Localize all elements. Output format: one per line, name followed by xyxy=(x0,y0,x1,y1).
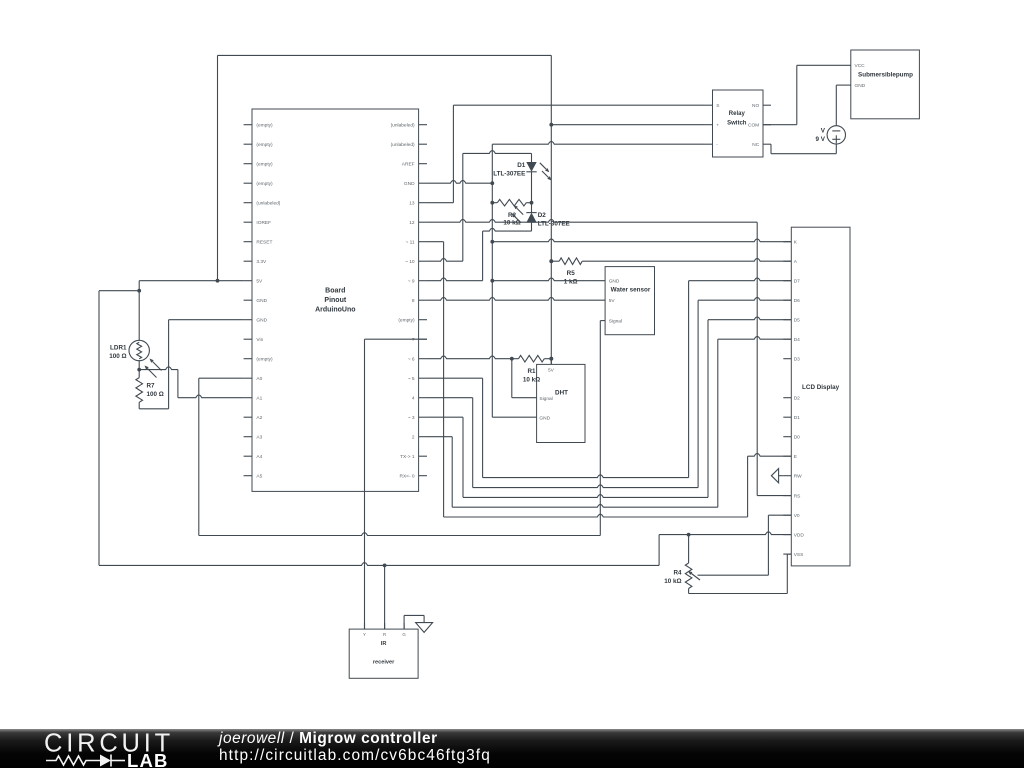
resistor R2 xyxy=(492,202,497,204)
board U1 right pin RX<- 0 row 18 xyxy=(419,475,427,477)
LCD pin RS xyxy=(783,495,791,497)
board U1 right pin ~ 3 row 15 xyxy=(419,416,427,418)
board U1 right pin GND row 3 xyxy=(419,182,427,184)
wire DHT 5V stub xyxy=(550,359,552,365)
board U1 right pin 7 row 11 xyxy=(419,338,427,340)
svg-text:+: + xyxy=(716,123,719,128)
wire IR G up xyxy=(403,615,405,629)
board-pinout U1 ArduinoUno xyxy=(252,109,419,491)
svg-text:VDD: VDD xyxy=(794,532,805,538)
wire GND riser x168 xyxy=(168,320,170,409)
svg-text:8: 8 xyxy=(412,298,415,304)
svg-text:D1: D1 xyxy=(517,162,526,169)
relay left pin + xyxy=(705,124,713,126)
LCD pin D2 xyxy=(783,397,791,399)
node LDR top-left junction xyxy=(137,289,141,293)
svg-text:LDR1: LDR1 xyxy=(110,344,127,351)
svg-text:5V: 5V xyxy=(609,298,616,304)
board U1 left pin GND row 10 xyxy=(244,319,252,321)
wire 5V corner to LDR xyxy=(138,281,140,341)
IR receiver pin R xyxy=(384,623,386,629)
wire COM riser xyxy=(796,65,798,124)
board U1 left pin A2 row 15 xyxy=(244,416,252,418)
board U1 left pin A4 row 17 xyxy=(244,455,252,457)
wire relay S feed xyxy=(453,104,704,106)
svg-text:AREF: AREF xyxy=(402,161,415,167)
circuitlab logo xyxy=(42,729,192,768)
svg-text:D7: D7 xyxy=(794,278,800,284)
wire pump VCC feed xyxy=(797,64,851,66)
svg-text:(unlabeled): (unlabeled) xyxy=(256,200,280,206)
svg-text:receiver: receiver xyxy=(373,660,395,666)
svg-text:G: G xyxy=(402,632,406,637)
svg-text:RS: RS xyxy=(794,493,801,499)
wire A0 bottom run xyxy=(199,533,601,536)
svg-text:Submersiblepump: Submersiblepump xyxy=(858,71,913,78)
wire D7 riser xyxy=(688,281,690,478)
svg-text:~ 9: ~ 9 xyxy=(408,278,415,284)
battery V1 symbol xyxy=(827,126,845,144)
svg-text:RX<- 0: RX<- 0 xyxy=(400,473,415,479)
wire bottom 5V rail xyxy=(99,563,659,566)
LCD pin E xyxy=(783,455,791,457)
svg-text:A4: A4 xyxy=(256,454,262,460)
board U1 right pin ~ 6 row 12 xyxy=(419,358,427,360)
wire battery bottom lead xyxy=(835,144,837,154)
LCD pin K xyxy=(783,241,791,243)
svg-text:D1: D1 xyxy=(794,415,800,421)
R4 wiper arrow xyxy=(691,574,700,581)
wire VSS riser xyxy=(786,554,788,593)
LDR1 light arrows xyxy=(153,362,162,371)
svg-text:100 Ω: 100 Ω xyxy=(147,391,164,398)
node IR R junction xyxy=(383,564,387,568)
node 5V junction at x217 xyxy=(216,279,220,283)
board U1 left pin (empty) row 0 xyxy=(244,124,252,126)
board U1 right pin (unlabeled) row 1 xyxy=(419,143,427,145)
LCD pin VSS xyxy=(783,553,791,555)
wire R7 bottom to GND riser xyxy=(139,408,168,410)
board U1 left pin IOREF row 5 xyxy=(244,221,252,223)
board U1 left pin (empty) row 12 xyxy=(244,358,252,360)
svg-text:7: 7 xyxy=(412,337,415,343)
wire relay plus feed xyxy=(551,124,704,126)
board U1 left pin RESET row 6 xyxy=(244,241,252,243)
wire DHT signal feed xyxy=(512,397,537,399)
svg-text:D5: D5 xyxy=(794,317,800,323)
svg-text:(unlabeled): (unlabeled) xyxy=(391,122,415,128)
wire water sensor GND line xyxy=(492,278,605,281)
wire 5V pin to left corner xyxy=(139,280,243,282)
wire pin9 out xyxy=(427,278,483,281)
wire bus L3 xyxy=(463,495,708,498)
svg-text:TX-> 1: TX-> 1 xyxy=(400,454,415,460)
svg-text:2: 2 xyxy=(412,434,415,440)
wire IR G to ground xyxy=(404,614,424,616)
wire pin7 across board xyxy=(365,338,428,340)
svg-text:(empty): (empty) xyxy=(256,356,273,362)
board U1 right pin (empty) row 10 xyxy=(419,319,427,321)
svg-text:4: 4 xyxy=(412,395,415,401)
LCD pin D7 xyxy=(783,280,791,282)
wire pin3 drop L3 xyxy=(462,417,464,497)
resistor R7 xyxy=(136,378,143,403)
svg-text:12: 12 xyxy=(409,220,415,226)
wire R4 top lead xyxy=(688,535,690,563)
wire A0 feed xyxy=(199,377,244,379)
svg-text:A1: A1 xyxy=(256,395,262,401)
submersible pump module xyxy=(851,50,920,119)
svg-text:~ 10: ~ 10 xyxy=(405,259,415,265)
wire V0 feed xyxy=(768,514,791,516)
svg-text:100 Ω: 100 Ω xyxy=(109,353,126,360)
svg-text:5V: 5V xyxy=(256,278,263,284)
svg-text:RESET: RESET xyxy=(256,239,272,245)
svg-text:R: R xyxy=(383,632,386,637)
relay right pin NO xyxy=(763,104,771,106)
board U1 right pin ~ 10 row 7 xyxy=(419,260,427,262)
wire RS drop xyxy=(756,222,758,495)
svg-text:1 kΩ: 1 kΩ xyxy=(564,279,578,286)
svg-text:GND: GND xyxy=(256,317,267,323)
board U1 right pin ~ 9 row 8 xyxy=(419,280,427,282)
R1 terminal dots xyxy=(510,357,514,361)
R5 terminal dot xyxy=(549,259,553,263)
svg-text:(empty): (empty) xyxy=(256,142,273,148)
svg-text:LAB: LAB xyxy=(127,750,169,768)
svg-text:GND: GND xyxy=(404,181,415,187)
wire D1 top feed xyxy=(463,151,532,154)
svg-text:IR: IR xyxy=(381,641,387,647)
board U1 right pin TX-> 1 row 17 xyxy=(419,455,427,457)
wire battery top lead xyxy=(835,85,837,126)
board U1 left pin A0 row 13 xyxy=(244,377,252,379)
wire outer left rail xyxy=(98,291,100,566)
wire A1 riser down xyxy=(177,370,179,398)
LCD pin VDD xyxy=(783,534,791,536)
svg-text:Signal: Signal xyxy=(609,318,622,324)
wire E riser xyxy=(747,456,749,517)
node LDR-R7 junction xyxy=(137,368,141,372)
svg-text:~ 3: ~ 3 xyxy=(408,415,415,421)
relay left pin S xyxy=(705,104,713,106)
board U1 left pin Vin row 11 xyxy=(244,338,252,340)
svg-text:Pinout: Pinout xyxy=(324,297,346,304)
svg-text:GND: GND xyxy=(256,298,267,304)
wire pin3 out xyxy=(427,416,463,418)
wire VSS feed xyxy=(787,553,791,555)
wire LCD K line xyxy=(492,239,791,242)
svg-text:S: S xyxy=(716,103,719,109)
svg-text:~ 6: ~ 6 xyxy=(408,356,415,362)
IR receiver pin G xyxy=(403,623,405,629)
wire D6 feed xyxy=(698,297,791,300)
svg-text:Switch: Switch xyxy=(727,121,747,127)
wire pin8 to water 5V xyxy=(427,297,605,300)
LCD pin V0 xyxy=(783,514,791,516)
svg-text:D4: D4 xyxy=(794,337,800,343)
wire top rail y55 xyxy=(218,54,552,56)
svg-text:(unlabeled): (unlabeled) xyxy=(391,142,415,148)
wire R7 bottom lead xyxy=(138,402,140,409)
wire pin9 riser xyxy=(482,231,484,281)
board U1 right pin 2 row 16 xyxy=(419,436,427,438)
resistor R1 xyxy=(512,358,519,360)
logic level marker at LCD RW xyxy=(771,469,778,483)
svg-text:R5: R5 xyxy=(567,270,576,277)
D2 light arrows xyxy=(517,208,524,215)
wire GND rail corner up xyxy=(491,144,493,417)
wire VDD riser xyxy=(658,535,660,566)
photoresistor LDR1 circle xyxy=(129,340,149,360)
svg-text:(empty): (empty) xyxy=(256,161,273,167)
wire wiper run xyxy=(698,574,769,576)
board U1 right pin 12 row 5 xyxy=(419,221,427,223)
svg-text:VSS: VSS xyxy=(794,552,804,558)
relay left pin - xyxy=(705,143,713,145)
node R1 5V junction xyxy=(549,357,553,361)
svg-text:IOREF: IOREF xyxy=(256,220,271,226)
wire pin6 to R1 xyxy=(427,356,512,359)
node R5 feed junction xyxy=(549,259,553,263)
board U1 right pin 13 row 4 xyxy=(419,202,427,204)
svg-text:10 kΩ: 10 kΩ xyxy=(664,578,681,585)
wire R4 bottom lead xyxy=(688,589,690,594)
wire DHT GND feed xyxy=(492,416,536,418)
wire D5 riser xyxy=(707,320,709,498)
wire pin13 riser xyxy=(452,105,454,203)
svg-text:D2: D2 xyxy=(794,395,800,401)
wire bus L1 xyxy=(483,475,689,478)
wire D5 feed xyxy=(708,317,791,320)
svg-text:Board: Board xyxy=(325,288,345,295)
svg-text:(empty): (empty) xyxy=(256,181,273,187)
svg-text:LCD Display: LCD Display xyxy=(802,384,840,391)
wire D7 feed xyxy=(689,278,792,281)
board U1 left pin GND row 9 xyxy=(244,299,252,301)
wire LDR to R7 xyxy=(138,361,140,378)
wire junction to A1 riser xyxy=(139,367,178,370)
svg-text:NC: NC xyxy=(752,142,759,148)
board U1 left pin A5 row 18 xyxy=(244,475,252,477)
LCD pin D0 xyxy=(783,436,791,438)
wire R4 bottom run xyxy=(689,593,788,595)
wire V0 drop xyxy=(767,515,769,575)
IR receiver module xyxy=(349,629,418,678)
relay switch module xyxy=(713,90,764,157)
svg-text:A5: A5 xyxy=(256,473,262,479)
wire relay NC drop xyxy=(770,144,772,154)
svg-text:V0: V0 xyxy=(794,513,800,519)
wire GND pin to rail xyxy=(427,180,492,183)
board U1 left pin A1 row 14 xyxy=(244,397,252,399)
svg-text:~ 11: ~ 11 xyxy=(405,239,414,245)
wire bus L5 xyxy=(444,514,748,517)
wire 5V rail x551 vertical xyxy=(550,55,552,364)
svg-text:Vin: Vin xyxy=(256,337,263,343)
node GND rail junction xyxy=(490,181,494,185)
svg-text:~ 5: ~ 5 xyxy=(408,376,415,382)
node K line junction xyxy=(490,240,494,244)
svg-text:A0: A0 xyxy=(256,376,262,382)
LCD pin D1 xyxy=(783,416,791,418)
wire DHT signal drop xyxy=(511,359,513,398)
wire GND to relay minus xyxy=(492,141,704,144)
wire water signal stub xyxy=(600,320,605,322)
wire pin2 out xyxy=(427,436,452,438)
wire left riser x217 xyxy=(217,55,219,280)
svg-text:9 V: 9 V xyxy=(816,136,826,143)
wire pin12 to RS run xyxy=(427,219,757,222)
svg-text:ArduinoUno: ArduinoUno xyxy=(315,307,355,314)
wire pin4 out xyxy=(427,397,473,399)
svg-text:D6: D6 xyxy=(794,298,800,304)
wire A1 feed xyxy=(178,395,244,398)
svg-text:A3: A3 xyxy=(256,434,262,440)
board U1 left pin (empty) row 1 xyxy=(244,143,252,145)
svg-text:R4: R4 xyxy=(673,569,682,576)
wire pump GND out xyxy=(836,84,851,86)
board U1 left pin A3 row 16 xyxy=(244,436,252,438)
LCD pin D5 xyxy=(783,319,791,321)
LCD pin D4 xyxy=(783,338,791,340)
board U1 right pin 8 row 9 xyxy=(419,299,427,301)
svg-text:GND: GND xyxy=(539,415,550,421)
LED D2 symbol xyxy=(531,203,533,213)
potentiometer R4 xyxy=(685,563,692,589)
water sensor module xyxy=(605,267,654,335)
relay right pin NC xyxy=(763,143,771,145)
LED D1 symbol xyxy=(531,153,533,162)
svg-text:(empty): (empty) xyxy=(256,122,273,128)
IR receiver pin Y xyxy=(364,623,366,629)
svg-text:GND: GND xyxy=(609,278,620,284)
svg-text:D3: D3 xyxy=(794,356,800,362)
board U1 right pin AREF row 2 xyxy=(419,163,427,165)
wire relay COM out xyxy=(763,124,797,126)
node water GND junction xyxy=(490,279,494,283)
svg-text:Relay: Relay xyxy=(729,111,746,117)
wire R5 to LCD A xyxy=(582,258,791,261)
wire water signal drop xyxy=(599,321,601,536)
node relay+ junction xyxy=(549,123,553,127)
LCD pin RW xyxy=(783,475,791,477)
footer bar xyxy=(0,729,1024,768)
svg-text:Y: Y xyxy=(363,632,366,637)
wire pin11 out xyxy=(427,241,444,243)
wire pin11 drop L5 xyxy=(443,242,445,517)
wire VDD line xyxy=(659,532,791,535)
board U1 left pin 3.3V row 7 xyxy=(244,260,252,262)
wire GND2 pin feed xyxy=(169,319,244,321)
wire pin13 out xyxy=(427,202,453,204)
wire D2 bottom loop xyxy=(483,228,532,231)
svg-text:Signal: Signal xyxy=(539,396,552,402)
svg-text:3.3V: 3.3V xyxy=(256,259,267,265)
svg-text:13: 13 xyxy=(409,200,415,206)
svg-text:NO: NO xyxy=(752,103,759,109)
svg-text:GND: GND xyxy=(855,83,866,89)
wire RS feed xyxy=(757,495,791,497)
board U1 left pin (empty) row 3 xyxy=(244,182,252,184)
wire pin5 drop L1 xyxy=(482,378,484,477)
LCD display module xyxy=(791,227,850,566)
wire bus L2 xyxy=(473,485,698,488)
board U1 right pin 4 row 14 xyxy=(419,397,427,399)
wire pin4 drop L2 xyxy=(472,398,474,488)
svg-text:D0: D0 xyxy=(794,434,800,440)
DHT sensor module xyxy=(537,364,585,442)
wire pin10 out xyxy=(427,258,463,261)
wire D4 riser xyxy=(717,339,719,507)
board U1 left pin (empty) row 2 xyxy=(244,163,252,165)
svg-text:VCC: VCC xyxy=(855,63,866,69)
wire pin10 riser xyxy=(462,153,464,261)
svg-text:R1: R1 xyxy=(527,368,536,375)
D1 light arrows xyxy=(540,163,547,170)
wire D4 feed xyxy=(718,336,792,339)
node R4 top junction xyxy=(687,533,691,537)
svg-text:RW: RW xyxy=(794,473,802,479)
footer text xyxy=(219,731,491,765)
R2 terminal dots xyxy=(490,201,494,205)
svg-text:COM: COM xyxy=(748,122,759,128)
wire IR R drop xyxy=(384,565,386,629)
board U1 right pin ~ 11 row 6 xyxy=(419,241,427,243)
wire IR Y drop xyxy=(364,339,366,629)
svg-text:10 kΩ: 10 kΩ xyxy=(523,376,540,383)
ground symbol xyxy=(423,615,425,622)
wire pin2 drop L4 xyxy=(451,437,453,508)
wire D6 riser xyxy=(697,300,699,487)
wire pin5 out xyxy=(427,377,483,379)
relay right pin COM xyxy=(763,124,771,126)
svg-text:D2: D2 xyxy=(538,212,547,219)
svg-text:R7: R7 xyxy=(147,382,156,389)
LCD pin D6 xyxy=(783,299,791,301)
svg-text:DHT: DHT xyxy=(555,390,568,397)
svg-text:A2: A2 xyxy=(256,415,262,421)
wire E feed xyxy=(748,453,792,456)
board U1 right pin (unlabeled) row 0 xyxy=(419,124,427,126)
svg-text:E: E xyxy=(794,454,797,460)
wire bus L4 xyxy=(452,504,718,507)
board U1 left pin 5V row 8 xyxy=(244,280,252,282)
LCD pin D3 xyxy=(783,358,791,360)
LCD pin A xyxy=(783,260,791,262)
svg-text:LTL-307EE: LTL-307EE xyxy=(493,170,525,177)
board U1 right pin ~ 5 row 13 xyxy=(419,377,427,379)
resistor R5 xyxy=(551,260,559,262)
board U1 left pin (unlabeled) row 4 xyxy=(244,202,252,204)
wire A0 drop x198 xyxy=(198,378,200,535)
wire battery to relay NC xyxy=(771,153,836,155)
wire LDR branch left xyxy=(99,290,139,292)
svg-text:(empty): (empty) xyxy=(398,317,415,323)
svg-text:Water sensor: Water sensor xyxy=(611,286,651,293)
svg-text:5V: 5V xyxy=(548,367,555,373)
